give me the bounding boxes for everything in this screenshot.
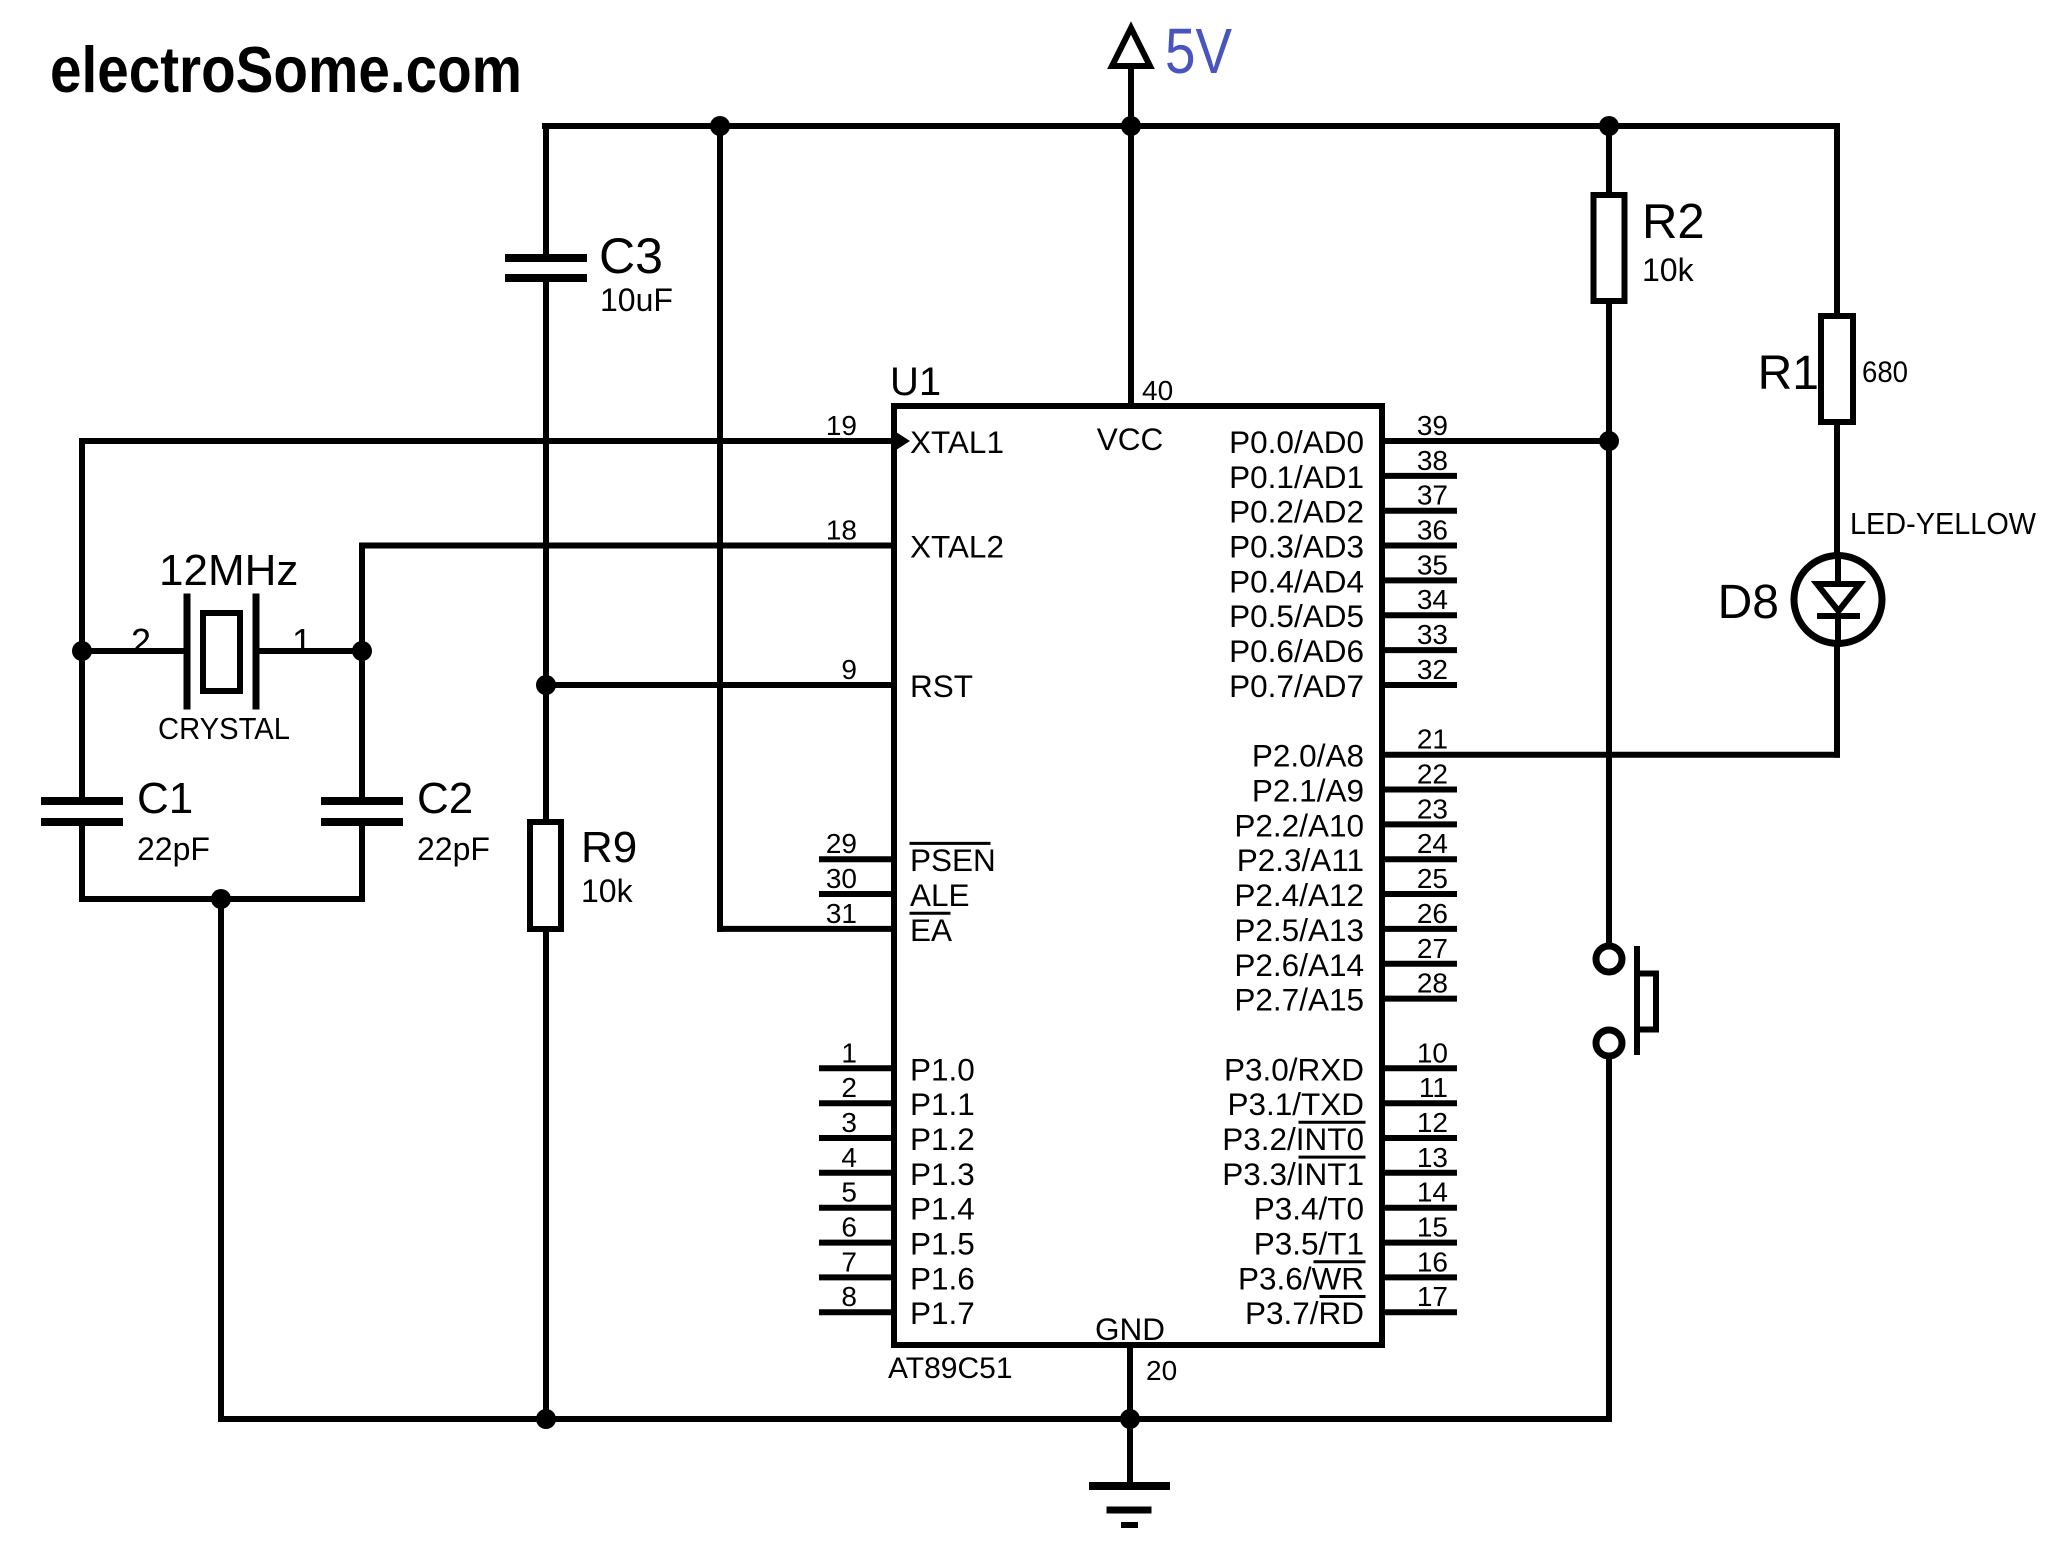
pin name P1.6: [910, 1260, 975, 1296]
svg-text:1: 1: [292, 621, 312, 662]
svg-text:23: 23: [1417, 793, 1448, 824]
wire: C3 to RST node: [543, 278, 549, 685]
pin 11 stub: [1382, 1100, 1454, 1106]
svg-text:P3.0/RXD: P3.0/RXD: [1224, 1051, 1364, 1087]
label R1: [1758, 347, 1819, 400]
svg-text:PSEN: PSEN: [910, 842, 996, 878]
pin number 22: [1417, 759, 1448, 790]
pin name ALE: [910, 877, 970, 913]
svg-text:30: 30: [826, 863, 857, 894]
value 22pF (C2): [417, 831, 490, 867]
wire: +5V top rail: [545, 123, 1837, 129]
svg-text:14: 14: [1417, 1177, 1448, 1208]
pin name P2.0/A8: [1252, 738, 1364, 774]
svg-text:P1.4: P1.4: [910, 1191, 975, 1227]
wire: LED cathode to P2.0 pin 21: [1382, 644, 1837, 755]
svg-text:XTAL2: XTAL2: [910, 529, 1004, 565]
label C1: [137, 774, 193, 823]
wire: push button to ground rail: [1130, 1056, 1609, 1419]
svg-text:P3.5/T1: P3.5/T1: [1254, 1226, 1364, 1262]
pin 22 stub: [1382, 787, 1454, 793]
pin number 38: [1417, 445, 1448, 476]
junction ground rail at R9: [536, 1409, 556, 1429]
pin name P2.5/A13: [1234, 912, 1364, 948]
wire: top rail to R1: [1834, 126, 1840, 316]
wire: C2 to common node: [359, 822, 365, 899]
svg-text:P3.7/RD: P3.7/RD: [1245, 1295, 1364, 1331]
svg-text:RST: RST: [910, 668, 973, 704]
svg-text:15: 15: [1417, 1212, 1448, 1243]
pin 14 stub: [1382, 1205, 1454, 1211]
label C2: [417, 774, 473, 823]
wire: R2 to P0.0 node: [1606, 301, 1612, 441]
pin number 39: [1417, 410, 1448, 441]
svg-text:9: 9: [841, 654, 857, 685]
svg-text:P0.0/AD0: P0.0/AD0: [1229, 424, 1364, 460]
overline INT1: [1300, 1156, 1364, 1159]
svg-text:P2.6/A14: P2.6/A14: [1234, 947, 1364, 983]
wire: top rail to C3: [543, 126, 549, 258]
svg-text:8: 8: [841, 1281, 857, 1312]
pin number 33: [1417, 619, 1448, 650]
svg-text:16: 16: [1417, 1246, 1448, 1277]
svg-text:24: 24: [1417, 828, 1448, 859]
svg-text:680: 680: [1862, 356, 1908, 389]
svg-text:P3.1/TXD: P3.1/TXD: [1227, 1086, 1364, 1122]
svg-text:P2.7/A15: P2.7/A15: [1234, 982, 1364, 1018]
pin number 29: [826, 828, 857, 859]
svg-text:P3.6/WR: P3.6/WR: [1238, 1260, 1364, 1296]
svg-text:P3.2/INT0: P3.2/INT0: [1222, 1121, 1364, 1157]
svg-text:C1: C1: [137, 774, 193, 823]
power symbol 5V arrow: [1112, 28, 1150, 126]
wire: common node down to ground rail: [218, 899, 224, 1419]
wire: XTAL2 pin 18: [362, 546, 894, 652]
pin number 35: [1417, 549, 1448, 580]
pin name P3.6/WR: [1238, 1260, 1364, 1296]
pin 1 stub: [822, 1065, 894, 1071]
pin number 10: [1417, 1037, 1448, 1068]
pin name P1.4: [910, 1191, 975, 1227]
junction on top rail at R2: [1599, 116, 1619, 136]
overline RD: [1321, 1295, 1364, 1298]
pin name P0.4/AD4: [1229, 563, 1364, 599]
svg-text:P1.6: P1.6: [910, 1260, 975, 1296]
junction on top rail at EA branch: [710, 116, 730, 136]
pin 25 stub: [1382, 891, 1454, 897]
pin name XTAL1: [910, 424, 1004, 460]
svg-text:3: 3: [841, 1107, 857, 1138]
svg-text:20: 20: [1146, 1355, 1177, 1386]
pin 26 stub: [1382, 926, 1454, 932]
pin number 31: [826, 898, 857, 929]
svg-text:29: 29: [826, 828, 857, 859]
pin number 3: [841, 1107, 857, 1138]
pin name P3.5/T1: [1254, 1226, 1364, 1262]
pin 36 stub: [1382, 543, 1454, 549]
pin number 5: [841, 1177, 857, 1208]
svg-text:P1.1: P1.1: [910, 1086, 975, 1122]
wire: ground bottom rail: [221, 1416, 1609, 1422]
pin name P1.3: [910, 1156, 975, 1192]
overline PSEN: [911, 842, 989, 845]
wire: XTAL1 pin 19: [82, 441, 894, 651]
pin 12 stub: [1382, 1135, 1454, 1141]
pin number 21: [1417, 724, 1448, 755]
pin name P0.5/AD5: [1229, 598, 1364, 634]
pin 16 stub: [1382, 1274, 1454, 1280]
svg-text:37: 37: [1417, 480, 1448, 511]
pin name P0.7/AD7: [1229, 668, 1364, 704]
label D8: [1718, 576, 1779, 629]
pin 5 stub: [822, 1205, 894, 1211]
pin number 30: [826, 863, 857, 894]
label C3: [599, 228, 663, 284]
svg-text:21: 21: [1417, 724, 1448, 755]
pin number 18: [826, 515, 857, 546]
svg-text:P0.2/AD2: P0.2/AD2: [1229, 494, 1364, 530]
svg-text:EA: EA: [910, 912, 952, 948]
svg-text:31: 31: [826, 898, 857, 929]
pin name P3.1/TXD: [1227, 1086, 1364, 1122]
svg-text:10uF: 10uF: [600, 282, 673, 318]
pin name P0.6/AD6: [1229, 633, 1364, 669]
label LED-YELLOW: [1850, 506, 2037, 541]
pin 8 stub: [822, 1309, 894, 1315]
svg-text:17: 17: [1417, 1281, 1448, 1312]
pin 7 stub: [822, 1274, 894, 1280]
pin number 17: [1417, 1281, 1448, 1312]
pin number 37: [1417, 480, 1448, 511]
wire: top rail down to EA pin 31: [720, 126, 894, 929]
wire: C1 to common node: [82, 822, 362, 899]
wire: GND pin 20: [1127, 1345, 1133, 1419]
pin 15 stub: [1382, 1240, 1454, 1246]
svg-text:P0.5/AD5: P0.5/AD5: [1229, 598, 1364, 634]
pin name P2.3/A11: [1237, 842, 1364, 878]
pin name P0.2/AD2: [1229, 494, 1364, 530]
value 10uF: [600, 282, 673, 318]
pin name P0.3/AD3: [1229, 529, 1364, 565]
wire: P0.0 node down to push button: [1606, 441, 1612, 946]
pin name P2.6/A14: [1234, 947, 1364, 983]
pin number 28: [1417, 968, 1448, 999]
pin number 34: [1417, 584, 1448, 615]
pin name P2.4/A12: [1234, 877, 1364, 913]
svg-text:1: 1: [841, 1037, 857, 1068]
value 12MHz: [159, 546, 298, 595]
svg-text:10k: 10k: [1642, 252, 1695, 288]
pin number 11: [1419, 1072, 1448, 1103]
pin number 16: [1417, 1246, 1448, 1277]
svg-text:GND: GND: [1095, 1311, 1165, 1347]
svg-text:P1.0: P1.0: [910, 1051, 975, 1087]
pin 4 stub: [822, 1170, 894, 1176]
svg-text:22pF: 22pF: [417, 831, 490, 867]
pin name P3.7/RD: [1245, 1295, 1364, 1331]
pin number 9: [841, 654, 857, 685]
pin number 36: [1417, 515, 1448, 546]
label CRYSTAL: [158, 711, 290, 746]
svg-text:P1.7: P1.7: [910, 1295, 975, 1331]
pin name P3.4/T0: [1254, 1191, 1364, 1227]
crystal X1 12MHz: [82, 597, 362, 706]
pin name P0.1/AD1: [1229, 459, 1364, 495]
svg-text:P0.6/AD6: P0.6/AD6: [1229, 633, 1364, 669]
pin 28 stub: [1382, 996, 1454, 1002]
overline INT0: [1300, 1121, 1364, 1124]
capacitor C1: [45, 801, 119, 822]
crystal pin number 1: [292, 621, 312, 662]
pin name P3.2/INT0: [1222, 1121, 1364, 1157]
pin number 19: [826, 410, 857, 441]
wire: P0.0/AD0 pin 39 to R2 node: [1382, 438, 1609, 444]
svg-text:2: 2: [841, 1072, 857, 1103]
pin 3 stub: [822, 1135, 894, 1141]
svg-text:CRYSTAL: CRYSTAL: [158, 711, 290, 746]
wire: crystal right to C2: [359, 651, 365, 801]
pin name P2.1/A9: [1252, 773, 1364, 809]
svg-text:28: 28: [1417, 968, 1448, 999]
pin name P3.0/RXD: [1224, 1051, 1364, 1087]
svg-text:35: 35: [1417, 549, 1448, 580]
svg-text:25: 25: [1417, 863, 1448, 894]
IC U1 AT89C51 body: [894, 406, 1382, 1345]
value 680: [1862, 356, 1908, 389]
pin 34 stub: [1382, 612, 1454, 618]
svg-text:XTAL1: XTAL1: [910, 424, 1004, 460]
svg-text:19: 19: [826, 410, 857, 441]
svg-text:22: 22: [1417, 759, 1448, 790]
pin 24 stub: [1382, 856, 1454, 862]
svg-text:C2: C2: [417, 774, 473, 823]
svg-text:P0.1/AD1: P0.1/AD1: [1229, 459, 1364, 495]
pin number 4: [841, 1142, 857, 1173]
label R9: [581, 823, 637, 872]
clock input arrow at XTAL1: [896, 432, 910, 450]
svg-text:P2.5/A13: P2.5/A13: [1234, 912, 1364, 948]
svg-text:36: 36: [1417, 515, 1448, 546]
pin number 12: [1417, 1107, 1448, 1138]
svg-text:11: 11: [1419, 1072, 1448, 1103]
svg-text:6: 6: [841, 1212, 857, 1243]
wire: top rail to R2: [1606, 126, 1612, 195]
svg-text:P3.4/T0: P3.4/T0: [1254, 1191, 1364, 1227]
pin 37 stub: [1382, 508, 1454, 514]
resistor R9: [530, 822, 561, 929]
svg-text:P0.7/AD7: P0.7/AD7: [1229, 668, 1364, 704]
pin 38 stub: [1382, 473, 1454, 479]
svg-text:18: 18: [826, 515, 857, 546]
svg-text:P2.1/A9: P2.1/A9: [1252, 773, 1364, 809]
pin name P3.3/INT1: [1222, 1156, 1364, 1192]
junction RST node: [536, 675, 556, 695]
pin name VCC: [1097, 421, 1164, 457]
svg-text:13: 13: [1417, 1142, 1448, 1173]
svg-text:ALE: ALE: [910, 877, 970, 913]
pin name P1.2: [910, 1121, 975, 1157]
wire: crystal left to C1: [79, 651, 85, 801]
pin name P0.0/AD0: [1229, 424, 1364, 460]
svg-text:P2.3/A11: P2.3/A11: [1237, 842, 1364, 878]
pin number 6: [841, 1212, 857, 1243]
pin 6 stub: [822, 1240, 894, 1246]
svg-text:P1.2: P1.2: [910, 1121, 975, 1157]
capacitor C3: [509, 258, 583, 278]
crystal pin number 2: [131, 621, 151, 662]
LED D8: [1794, 556, 1882, 645]
pin 17 stub: [1382, 1309, 1454, 1315]
svg-text:R9: R9: [581, 823, 637, 872]
value 10k (R9): [581, 873, 634, 909]
svg-text:LED-YELLOW: LED-YELLOW: [1850, 506, 2037, 541]
junction on top rail at 5V/VCC: [1121, 116, 1141, 136]
pin number 23: [1417, 793, 1448, 824]
wire: R1 to LED anode: [1834, 422, 1840, 556]
resistor R1: [1821, 316, 1853, 422]
overline WR: [1315, 1260, 1364, 1263]
pin 30 stub: [822, 891, 894, 897]
pin 23 stub: [1382, 821, 1454, 827]
pin number 8: [841, 1281, 857, 1312]
svg-text:P2.2/A10: P2.2/A10: [1234, 807, 1364, 843]
pin name XTAL2: [910, 529, 1004, 565]
pin number 15: [1417, 1212, 1448, 1243]
svg-text:P0.3/AD3: P0.3/AD3: [1229, 529, 1364, 565]
svg-text:12MHz: 12MHz: [159, 546, 298, 595]
svg-text:4: 4: [841, 1142, 857, 1173]
push button switch: [1596, 946, 1656, 1056]
svg-text:C3: C3: [599, 228, 663, 284]
svg-text:10: 10: [1417, 1037, 1448, 1068]
svg-text:R1: R1: [1758, 347, 1819, 400]
junction capacitors common node: [211, 889, 231, 909]
pin name RST: [910, 668, 973, 704]
svg-text:5: 5: [841, 1177, 857, 1208]
value 10k (R2): [1642, 252, 1695, 288]
wire: R9 to ground rail: [543, 929, 549, 1419]
logo electroSome.com: [50, 33, 522, 106]
svg-text:2: 2: [131, 621, 151, 662]
svg-text:34: 34: [1417, 584, 1448, 615]
svg-text:AT89C51: AT89C51: [888, 1352, 1013, 1385]
pin name P1.7: [910, 1295, 975, 1331]
svg-text:22pF: 22pF: [137, 831, 210, 867]
resistor R2: [1594, 195, 1625, 301]
svg-text:38: 38: [1417, 445, 1448, 476]
pin 2 stub: [822, 1100, 894, 1106]
svg-text:VCC: VCC: [1097, 421, 1164, 457]
junction at P0.0 / R2 / switch node: [1599, 431, 1619, 451]
pin number 25: [1417, 863, 1448, 894]
svg-text:26: 26: [1417, 898, 1448, 929]
pin number 7: [841, 1246, 857, 1277]
svg-text:7: 7: [841, 1246, 857, 1277]
value 22pF (C1): [137, 831, 210, 867]
pin 33 stub: [1382, 647, 1454, 653]
wire: 5V to VCC pin 40: [1128, 126, 1134, 406]
svg-text:40: 40: [1142, 375, 1173, 406]
junction ground rail at GND pin: [1120, 1409, 1140, 1429]
ground symbol: [1093, 1419, 1166, 1525]
pin name EA: [910, 912, 952, 948]
pin name GND: [1095, 1311, 1165, 1347]
svg-text:P0.4/AD4: P0.4/AD4: [1229, 563, 1364, 599]
pin 13 stub: [1382, 1170, 1454, 1176]
pin number 32: [1417, 654, 1448, 685]
svg-text:12: 12: [1417, 1107, 1448, 1138]
label U1: [890, 360, 941, 404]
pin name P2.2/A10: [1234, 807, 1364, 843]
label 5V: [1165, 15, 1232, 87]
wire: RST pin 9: [546, 682, 894, 688]
pin number 27: [1417, 933, 1448, 964]
pin 35 stub: [1382, 577, 1454, 583]
label R2: [1642, 195, 1705, 249]
svg-text:R2: R2: [1642, 195, 1705, 249]
svg-text:P1.5: P1.5: [910, 1226, 975, 1262]
pin name P1.5: [910, 1226, 975, 1262]
svg-text:10k: 10k: [581, 873, 634, 909]
pin number 24: [1417, 828, 1448, 859]
pin name P1.0: [910, 1051, 975, 1087]
svg-text:D8: D8: [1718, 576, 1779, 629]
wire: RST node to R9: [543, 685, 549, 822]
pin number 26: [1417, 898, 1448, 929]
pin number 14: [1417, 1177, 1448, 1208]
pin number 40: [1142, 375, 1173, 406]
svg-text:P2.4/A12: P2.4/A12: [1234, 877, 1364, 913]
pin number 1: [841, 1037, 857, 1068]
svg-text:electroSome.com: electroSome.com: [50, 33, 522, 106]
junction crystal right: [352, 641, 372, 661]
pin 32 stub: [1382, 682, 1454, 688]
svg-text:U1: U1: [890, 360, 941, 404]
pin 27 stub: [1382, 961, 1454, 967]
pin name P2.7/A15: [1234, 982, 1364, 1018]
svg-text:P2.0/A8: P2.0/A8: [1252, 738, 1364, 774]
pin number 2: [841, 1072, 857, 1103]
overline EA: [911, 912, 949, 915]
svg-text:5V: 5V: [1165, 15, 1232, 87]
svg-text:27: 27: [1417, 933, 1448, 964]
svg-text:P1.3: P1.3: [910, 1156, 975, 1192]
pin 10 stub: [1382, 1065, 1454, 1071]
svg-text:33: 33: [1417, 619, 1448, 650]
pin 29 stub: [822, 856, 894, 862]
svg-text:39: 39: [1417, 410, 1448, 441]
junction crystal left: [72, 641, 92, 661]
pin number 13: [1417, 1142, 1448, 1173]
svg-text:P3.3/INT1: P3.3/INT1: [1222, 1156, 1364, 1192]
pin name P1.1: [910, 1086, 975, 1122]
label AT89C51: [888, 1352, 1013, 1385]
pin name PSEN: [910, 842, 996, 878]
pin number 20: [1146, 1355, 1177, 1386]
capacitor C2: [325, 801, 399, 822]
svg-text:32: 32: [1417, 654, 1448, 685]
